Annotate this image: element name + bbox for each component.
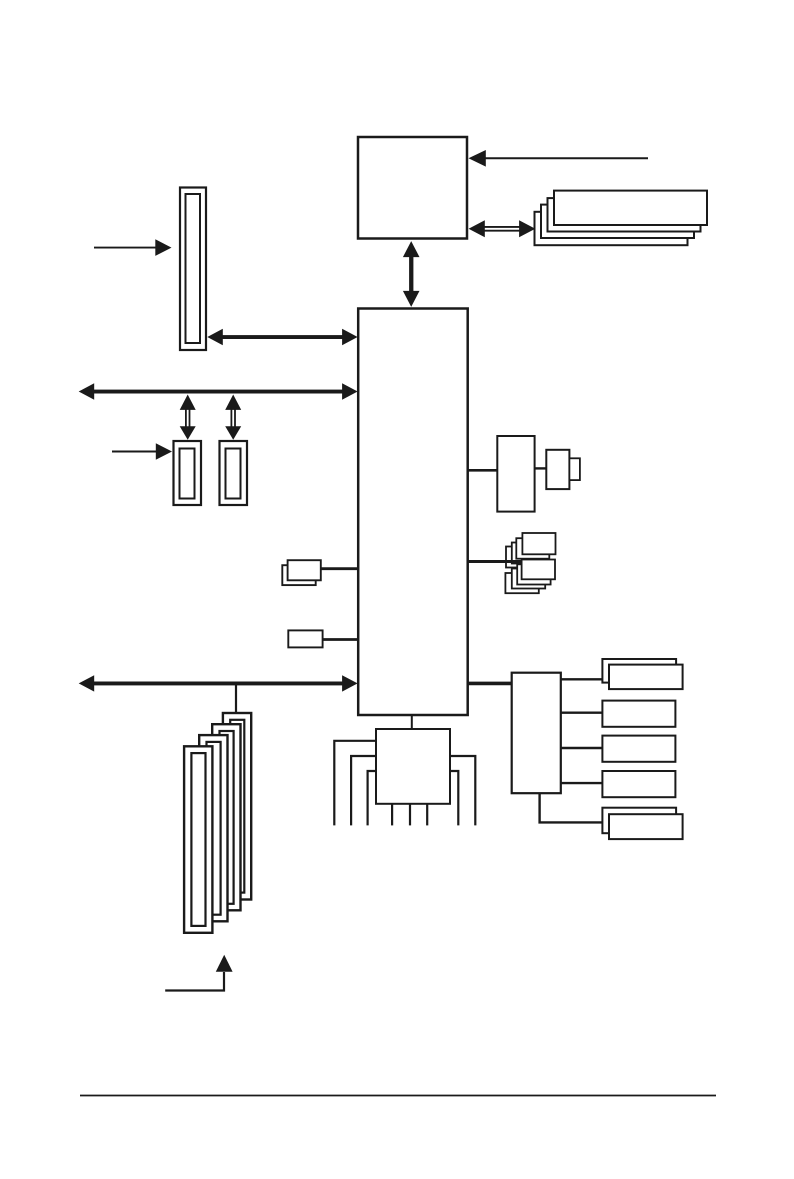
wire: PCI bus double-headed arrow [79,675,358,691]
wire: elbow connector to jack 5 [540,793,603,822]
wire: arrow into AGP slot [94,239,172,256]
jack 4 box [602,771,675,797]
wire: super I/O bottom pin 1 [391,804,393,826]
wire: connector to jack 3 [561,747,603,749]
wire: thick connector to audio codec [468,682,512,686]
memory module stack [535,191,708,246]
wire: super I/O bottom pin 3 [426,804,428,826]
wire: AGP bus double-headed arrow [207,329,357,345]
jack 2 box [602,701,675,727]
jack 5 stacked pair [602,808,682,839]
USB connector stack lower [505,560,555,594]
USB connector stack upper [506,533,556,568]
jack 1 stacked pair [602,659,682,689]
wire: connector to port box [535,467,547,469]
AGP slot [180,188,206,351]
wire: connector to I/O controller [468,469,498,472]
wire: upper system bus double-headed arrow [79,383,358,399]
wire: riser arrow below PCI slots [165,955,232,991]
slot A [174,441,202,505]
port nub [569,458,580,480]
wire: front-side bus vertical double arrow [403,241,420,307]
wire: super I/O leg left middle [351,756,376,825]
wire: clock input line into CPU [469,150,649,167]
wire: double-line arrow to slot A [180,395,196,440]
port box [546,450,569,489]
wire: super I/O leg right outer [450,756,475,825]
wire: super I/O leg left inner [368,771,376,825]
wire: super I/O leg right inner [450,771,458,825]
wire: connector from chipset to super I/O [411,715,413,729]
wire: connector to jack 4 [561,782,603,784]
PCI slot stack [184,713,251,933]
wire: super I/O leg left outer [334,741,376,826]
LAN connector pair [282,560,321,585]
wire: connector to jack 1 [561,678,603,680]
chipset box [358,309,468,716]
CPU box [358,137,467,239]
wire: double-line arrow to slot B [225,395,241,440]
wire: drop from PCI bus to PCI slots [235,685,237,714]
super I/O box [376,729,450,804]
slot B [220,441,248,505]
audio codec box [512,673,561,794]
wire: connector to LAN pair [321,567,358,570]
wire: arrow into slot A [112,443,172,460]
footer rule [80,1095,716,1097]
wire: connector to USB stacks [468,560,521,563]
wire: super I/O bottom pin 2 [409,804,411,826]
jack 3 box [602,736,675,762]
wire: connector to jack 2 [561,712,603,714]
I/O controller box [497,436,534,512]
small peripheral box [288,630,322,647]
wire: connector to small peripheral box [323,638,359,641]
wire: memory bus double-line arrow [469,220,536,237]
